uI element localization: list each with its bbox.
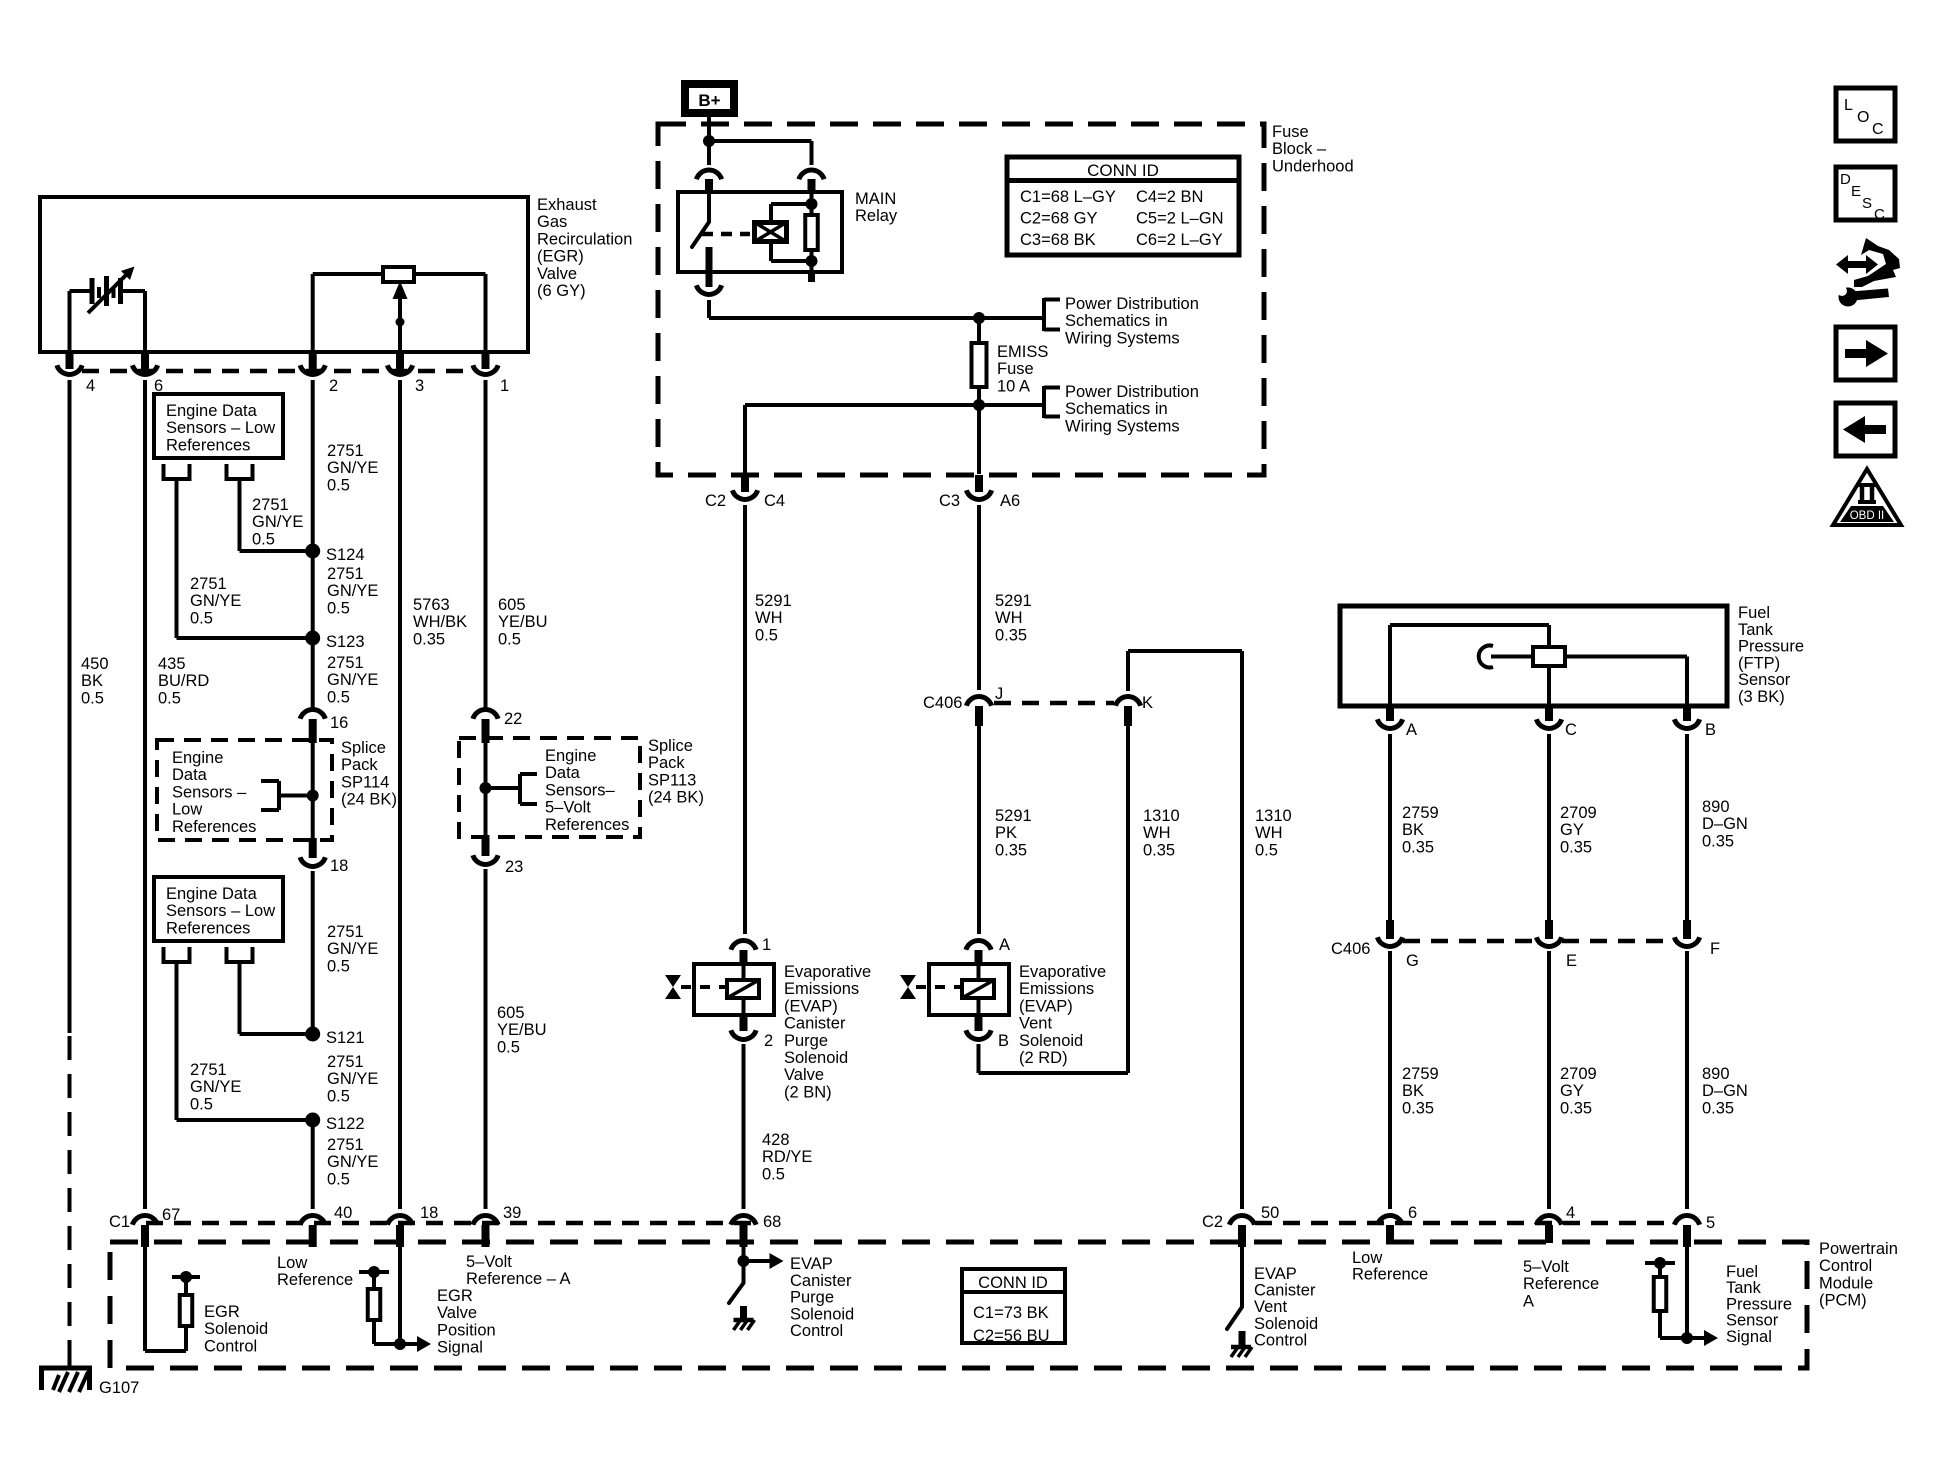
svg-text:C2=56 BU: C2=56 BU <box>973 1327 1050 1345</box>
svg-text:A: A <box>1523 1292 1534 1310</box>
PCM connector C2 dashed line <box>1255 1221 1675 1226</box>
wire 5291 PK to vent solenoid <box>977 726 981 934</box>
svg-text:Sensors–: Sensors– <box>545 781 616 799</box>
svg-text:2759: 2759 <box>1402 804 1439 822</box>
relay switch contact <box>692 192 713 272</box>
PCM pin 67 <box>109 1206 180 1247</box>
svg-text:4: 4 <box>1566 1204 1575 1222</box>
svg-text:Splice: Splice <box>648 737 693 755</box>
svg-text:0.5: 0.5 <box>327 599 350 617</box>
svg-text:F: F <box>1710 940 1720 958</box>
svg-text:J: J <box>995 685 1003 703</box>
svg-text:22: 22 <box>504 710 522 728</box>
svg-text:References: References <box>172 818 256 836</box>
svg-text:0.5: 0.5 <box>498 630 521 648</box>
svg-text:2751: 2751 <box>327 1136 364 1154</box>
svg-text:Solenoid: Solenoid <box>1254 1315 1318 1333</box>
svg-text:0.35: 0.35 <box>995 626 1027 644</box>
EGR position sensor element <box>70 267 146 353</box>
svg-text:Valve: Valve <box>537 265 577 283</box>
svg-text:Solenoid: Solenoid <box>790 1305 854 1323</box>
PCM pin 68 <box>731 1213 781 1247</box>
svg-text:MAIN: MAIN <box>855 190 896 208</box>
svg-text:2751: 2751 <box>327 1053 364 1071</box>
off-page bracket upper <box>1044 298 1060 331</box>
svg-text:0.5: 0.5 <box>497 1038 520 1056</box>
connector C2/C4 fuse block <box>705 475 785 510</box>
EGR connector dashed line <box>82 369 473 374</box>
svg-text:GN/YE: GN/YE <box>252 513 303 531</box>
svg-text:GN/YE: GN/YE <box>190 1078 241 1096</box>
EGR valve position signal node <box>394 1247 431 1352</box>
relay pin connector (switch) <box>696 170 721 192</box>
icon LOC <box>1836 88 1895 141</box>
svg-text:Power Distribution: Power Distribution <box>1065 295 1199 313</box>
svg-text:Pressure: Pressure <box>1738 638 1804 656</box>
svg-text:BU/RD: BU/RD <box>158 672 209 690</box>
relay coil top branch <box>771 198 818 221</box>
svg-text:18: 18 <box>330 857 348 875</box>
svg-text:G: G <box>1406 952 1419 970</box>
splice S124 <box>305 544 320 559</box>
svg-text:C6=2 L–GY: C6=2 L–GY <box>1136 231 1223 249</box>
FTP sensor signal node <box>1681 1247 1718 1346</box>
icon arrow left <box>1836 403 1895 456</box>
CONN ID table fuse block <box>1007 157 1239 255</box>
svg-text:C4=2 BN: C4=2 BN <box>1136 188 1203 206</box>
EVAP vent solenoid connector pin B <box>966 1015 1009 1050</box>
svg-text:C5=2 L–GN: C5=2 L–GN <box>1136 210 1224 228</box>
svg-text:50: 50 <box>1261 1204 1279 1222</box>
connector claw left of upper box <box>162 464 192 479</box>
wire through SP113 <box>484 741 488 837</box>
wire 605 YE/BU from pin 1 to splice pack SP113 <box>484 380 488 709</box>
svg-text:1: 1 <box>762 936 771 954</box>
wire through SP114 <box>311 743 315 840</box>
connector claw right of lower box <box>225 947 255 962</box>
ground purge control <box>734 1318 754 1323</box>
svg-text:Sensors – Low: Sensors – Low <box>166 419 275 437</box>
svg-text:D–GN: D–GN <box>1702 1082 1748 1100</box>
svg-text:EVAP: EVAP <box>790 1255 833 1273</box>
ground G107 <box>39 1366 139 1397</box>
wire 605 YE/BU from pin 23 to PCM pin 39 <box>484 869 488 1209</box>
svg-text:5291: 5291 <box>995 807 1032 825</box>
PCM pin 40 <box>300 1204 352 1247</box>
svg-text:2709: 2709 <box>1560 804 1597 822</box>
svg-text:RD/YE: RD/YE <box>762 1148 812 1166</box>
SP113 bracket <box>480 774 538 804</box>
svg-text:Solenoid: Solenoid <box>1019 1032 1083 1050</box>
svg-text:Recirculation: Recirculation <box>537 230 632 248</box>
svg-text:C3=68 BK: C3=68 BK <box>1020 231 1096 249</box>
svg-text:Relay: Relay <box>855 207 898 225</box>
svg-text:428: 428 <box>762 1131 790 1149</box>
svg-text:SP114: SP114 <box>341 773 389 791</box>
splice pack SP113 dashed box <box>459 738 640 837</box>
connector C406 pin J <box>923 685 1003 726</box>
icon arrow right <box>1836 327 1895 380</box>
Engine Data Sensors box upper <box>154 394 283 458</box>
svg-text:2: 2 <box>764 1032 773 1050</box>
svg-text:Data: Data <box>545 764 581 782</box>
EMISS fuse F1 10A <box>972 318 987 405</box>
svg-text:G107: G107 <box>99 1379 139 1397</box>
svg-text:S122: S122 <box>326 1115 365 1133</box>
purge solenoid valve symbol <box>665 975 727 999</box>
EGR connector pin 6 <box>132 352 163 395</box>
wire 5291 WH 0.35 to C406 J <box>977 505 981 690</box>
svg-text:0.5: 0.5 <box>81 689 104 707</box>
svg-text:Solenoid: Solenoid <box>784 1049 848 1067</box>
svg-text:Emissions: Emissions <box>784 980 859 998</box>
PCM pin 4 <box>1536 1204 1575 1243</box>
svg-text:GN/YE: GN/YE <box>327 1070 378 1088</box>
svg-text:Control: Control <box>1819 1257 1872 1275</box>
svg-text:EGR: EGR <box>437 1287 473 1305</box>
svg-text:Underhood: Underhood <box>1272 157 1354 175</box>
wire 2759 BK lower <box>1388 951 1392 1209</box>
svg-text:2751: 2751 <box>327 923 364 941</box>
svg-text:WH: WH <box>755 609 783 627</box>
svg-text:Evaporative: Evaporative <box>1019 963 1106 981</box>
svg-text:S124: S124 <box>326 546 365 564</box>
svg-text:Splice: Splice <box>341 739 386 757</box>
EGR connector pin 1 <box>473 352 509 395</box>
wire 890 D-GN lower <box>1685 951 1689 1209</box>
splice S123 <box>305 631 320 646</box>
PCM pin 50 <box>1202 1204 1279 1247</box>
splice S121 <box>305 1027 320 1042</box>
svg-text:References: References <box>166 919 250 937</box>
svg-text:Fuse: Fuse <box>997 360 1034 378</box>
FTP signal internal resistor <box>1645 1257 1687 1338</box>
svg-text:Canister: Canister <box>784 1015 846 1033</box>
svg-text:Valve: Valve <box>437 1304 477 1322</box>
svg-text:PK: PK <box>995 824 1017 842</box>
svg-text:Vent: Vent <box>1019 1015 1052 1033</box>
connector C406 pin G <box>1331 920 1419 970</box>
svg-text:S121: S121 <box>326 1029 365 1047</box>
svg-text:K: K <box>1142 694 1153 712</box>
svg-text:C2=68 GY: C2=68 GY <box>1020 210 1098 228</box>
svg-text:5291: 5291 <box>755 592 792 610</box>
svg-text:Engine Data: Engine Data <box>166 885 258 903</box>
connector C406 pin K <box>1115 694 1153 726</box>
svg-text:Wiring Systems: Wiring Systems <box>1065 417 1180 435</box>
svg-text:B: B <box>998 1032 1009 1050</box>
svg-text:CONN ID: CONN ID <box>1087 161 1159 180</box>
EGR solenoid control circuit <box>145 1247 200 1351</box>
svg-text:Control: Control <box>204 1337 257 1355</box>
EGR connector pin 3 <box>387 352 424 395</box>
svg-text:5291: 5291 <box>995 592 1032 610</box>
svg-text:0.5: 0.5 <box>190 609 213 627</box>
wire 5291 WH 0.5 to purge solenoid <box>743 505 747 934</box>
svg-text:605: 605 <box>497 1004 525 1022</box>
svg-text:L: L <box>1844 97 1853 114</box>
svg-text:Engine: Engine <box>172 749 223 767</box>
svg-text:EVAP: EVAP <box>1254 1265 1297 1283</box>
svg-text:0.35: 0.35 <box>1143 841 1175 859</box>
junction dot B+ branch <box>703 135 715 147</box>
svg-text:C1=73 BK: C1=73 BK <box>973 1304 1049 1322</box>
svg-text:BK: BK <box>81 672 103 690</box>
connector pin 22 <box>473 710 522 743</box>
svg-text:Module: Module <box>1819 1274 1873 1292</box>
svg-text:Engine Data: Engine Data <box>166 402 258 420</box>
vent solenoid valve symbol <box>900 975 962 999</box>
svg-text:Canister: Canister <box>790 1272 852 1290</box>
svg-text:S: S <box>1862 195 1872 212</box>
svg-text:C: C <box>1874 206 1885 223</box>
PCM pin 5 <box>1674 1214 1715 1247</box>
svg-text:(2 BN): (2 BN) <box>784 1083 832 1101</box>
svg-text:0.5: 0.5 <box>755 626 778 644</box>
wire 450 BK dashed section to G107 <box>68 1036 72 1356</box>
svg-text:A6: A6 <box>1000 492 1020 510</box>
FTP connector pin C <box>1536 706 1577 739</box>
icon shortcut wrench <box>1836 238 1900 307</box>
wire 450 BK from pin 4 <box>68 380 72 1033</box>
wire from right claw to S121 <box>240 962 313 1034</box>
svg-text:890: 890 <box>1702 798 1730 816</box>
connector pin 16 <box>300 710 348 743</box>
svg-text:39: 39 <box>503 1204 521 1222</box>
svg-text:0.5: 0.5 <box>327 1087 350 1105</box>
wire B+ to relay <box>707 113 711 165</box>
svg-text:1310: 1310 <box>1255 807 1292 825</box>
wire 428 RD/YE to PCM pin 68 <box>742 1044 746 1209</box>
svg-text:C1: C1 <box>109 1213 130 1231</box>
relay resistor <box>805 192 818 282</box>
splice S122 <box>305 1113 320 1128</box>
svg-text:E: E <box>1566 952 1577 970</box>
EGR connector pin 2 <box>300 352 338 395</box>
svg-text:(3 BK): (3 BK) <box>1738 688 1785 706</box>
fuse block underhood dashed box <box>658 124 1264 475</box>
svg-text:Canister: Canister <box>1254 1282 1316 1300</box>
svg-text:(6 GY): (6 GY) <box>537 282 586 300</box>
svg-text:3: 3 <box>415 377 424 395</box>
wire relay output to EMISS fuse <box>709 300 1044 324</box>
FTP sensor internal wiring <box>1390 625 1549 706</box>
svg-text:B+: B+ <box>698 91 720 110</box>
svg-text:Control: Control <box>790 1322 843 1340</box>
relay coil (solenoid) <box>754 222 787 242</box>
connector C406 pin E <box>1536 920 1577 970</box>
connector claw left of lower box <box>162 947 192 962</box>
off-page bracket lower <box>1044 386 1060 418</box>
wire 2709 GY lower <box>1547 951 1551 1209</box>
svg-text:GN/YE: GN/YE <box>327 582 378 600</box>
svg-text:2751: 2751 <box>327 654 364 672</box>
svg-text:0.35: 0.35 <box>1702 1099 1734 1117</box>
svg-text:(2 RD): (2 RD) <box>1019 1049 1068 1067</box>
svg-text:605: 605 <box>498 596 526 614</box>
svg-text:0.5: 0.5 <box>1255 841 1278 859</box>
C406 dashed connector line J-K <box>994 701 1114 706</box>
svg-text:0.5: 0.5 <box>252 530 275 548</box>
svg-text:Power Distribution: Power Distribution <box>1065 383 1199 401</box>
SP114 bracket <box>261 781 319 810</box>
svg-text:EMISS: EMISS <box>997 343 1048 361</box>
svg-text:5–Volt: 5–Volt <box>466 1253 512 1271</box>
svg-text:(24 BK): (24 BK) <box>341 791 397 809</box>
FTP sensing element <box>1479 646 1687 707</box>
svg-text:Purge: Purge <box>790 1289 834 1307</box>
svg-text:0.35: 0.35 <box>995 841 1027 859</box>
svg-text:(FTP): (FTP) <box>1738 654 1780 672</box>
svg-text:GN/YE: GN/YE <box>327 940 378 958</box>
svg-text:Low: Low <box>1352 1249 1382 1267</box>
svg-text:YE/BU: YE/BU <box>498 613 548 631</box>
svg-text:S123: S123 <box>326 633 365 651</box>
svg-text:Valve: Valve <box>784 1066 824 1084</box>
svg-text:BK: BK <box>1402 1082 1424 1100</box>
wire fused output <box>745 399 1044 474</box>
svg-text:Reference: Reference <box>1523 1275 1599 1293</box>
svg-text:GN/YE: GN/YE <box>190 592 241 610</box>
svg-text:C3: C3 <box>939 492 960 510</box>
svg-text:Sensor: Sensor <box>1738 671 1791 689</box>
connector C3/A6 fuse block <box>939 475 1020 510</box>
svg-text:6: 6 <box>1408 1204 1417 1222</box>
svg-text:YE/BU: YE/BU <box>497 1021 547 1039</box>
svg-text:C: C <box>1872 121 1884 138</box>
svg-text:Evaporative: Evaporative <box>784 963 871 981</box>
svg-text:BK: BK <box>1402 821 1424 839</box>
relay switch output connector <box>696 272 721 294</box>
svg-text:References: References <box>545 816 629 834</box>
svg-text:Signal: Signal <box>437 1339 483 1357</box>
svg-text:0.35: 0.35 <box>1702 832 1734 850</box>
wire from left claw to S123 <box>177 479 313 638</box>
svg-text:C4: C4 <box>764 492 785 510</box>
svg-text:Control: Control <box>1254 1331 1307 1349</box>
svg-text:5: 5 <box>1706 1214 1715 1232</box>
PCM pin 18 <box>387 1204 438 1247</box>
EVAP purge solenoid connector pin 1 <box>731 936 771 964</box>
svg-text:Pack: Pack <box>648 754 685 772</box>
svg-text:Low: Low <box>172 801 202 819</box>
svg-text:Schematics in: Schematics in <box>1065 312 1168 330</box>
svg-text:0.5: 0.5 <box>327 476 350 494</box>
svg-text:O: O <box>1857 109 1869 126</box>
svg-text:C1=68 L–GY: C1=68 L–GY <box>1020 188 1116 206</box>
svg-text:GY: GY <box>1560 1082 1584 1100</box>
svg-text:4: 4 <box>86 377 95 395</box>
svg-text:2: 2 <box>329 377 338 395</box>
svg-text:GN/YE: GN/YE <box>327 671 378 689</box>
Engine Data Sensors box lower <box>154 877 283 941</box>
svg-text:2759: 2759 <box>1402 1065 1439 1083</box>
CONN ID table PCM <box>962 1269 1065 1345</box>
connector pin 23 (splice) <box>473 835 523 876</box>
svg-text:Solenoid: Solenoid <box>204 1320 268 1338</box>
svg-text:Gas: Gas <box>537 213 567 231</box>
fuel tank pressure sensor box <box>1340 606 1727 706</box>
svg-text:0.35: 0.35 <box>1560 1099 1592 1117</box>
icon OBD II triangle <box>1833 469 1901 525</box>
EVAP purge control switch <box>729 1247 784 1320</box>
wire 890 D-GN upper <box>1685 734 1689 937</box>
svg-text:WH: WH <box>1143 824 1171 842</box>
relay actuator dashed link <box>702 232 750 237</box>
svg-text:Data: Data <box>172 766 208 784</box>
svg-text:435: 435 <box>158 655 186 673</box>
svg-text:5763: 5763 <box>413 596 450 614</box>
svg-text:10 A: 10 A <box>997 377 1030 395</box>
wire 5763 WH/BK from pin 3 to PCM pin 18 <box>398 380 402 1209</box>
EGR valve box <box>40 197 528 352</box>
svg-text:23: 23 <box>505 858 523 876</box>
svg-text:0.5: 0.5 <box>158 689 181 707</box>
svg-text:Signal: Signal <box>1726 1328 1772 1346</box>
svg-text:EGR: EGR <box>204 1303 240 1321</box>
svg-text:SP113: SP113 <box>648 771 696 789</box>
wire 2759 BK upper <box>1388 734 1392 937</box>
low reference internal resistor <box>359 1266 400 1344</box>
svg-text:Reference: Reference <box>1352 1265 1428 1283</box>
svg-text:Low: Low <box>277 1254 307 1272</box>
wire 1310 WH below K <box>1126 726 1130 1073</box>
svg-text:18: 18 <box>420 1204 438 1222</box>
svg-text:450: 450 <box>81 655 109 673</box>
svg-text:(24 BK): (24 BK) <box>648 789 704 807</box>
wire 2751 from S122 to PCM pin 40 <box>311 1120 315 1209</box>
wire 2751 from pin 2 to splice pack <box>311 380 315 709</box>
svg-text:0.5: 0.5 <box>327 1170 350 1188</box>
svg-text:Fuel: Fuel <box>1738 604 1770 622</box>
EVAP vent control switch <box>1227 1247 1246 1347</box>
svg-text:0.35: 0.35 <box>1402 1099 1434 1117</box>
svg-text:68: 68 <box>763 1213 781 1231</box>
svg-text:67: 67 <box>162 1206 180 1224</box>
main relay U1 box <box>678 192 842 272</box>
svg-text:B: B <box>1705 721 1716 739</box>
svg-text:GN/YE: GN/YE <box>327 459 378 477</box>
svg-text:A: A <box>999 936 1010 954</box>
svg-text:2751: 2751 <box>190 1061 227 1079</box>
wire 2709 GY upper <box>1547 734 1551 937</box>
svg-text:1310: 1310 <box>1143 807 1180 825</box>
svg-text:CONN ID: CONN ID <box>978 1274 1048 1292</box>
svg-text:Engine: Engine <box>545 747 596 765</box>
svg-text:GN/YE: GN/YE <box>327 1153 378 1171</box>
svg-text:(EGR): (EGR) <box>537 248 584 266</box>
svg-text:2751: 2751 <box>327 565 364 583</box>
wire from K up to PCM pin 50 <box>1128 651 1242 1209</box>
wire from left claw to S122 <box>177 962 313 1120</box>
svg-text:C2: C2 <box>1202 1213 1223 1231</box>
svg-text:1: 1 <box>500 377 509 395</box>
svg-text:0.5: 0.5 <box>190 1095 213 1113</box>
svg-text:0.5: 0.5 <box>762 1165 785 1183</box>
svg-text:(EVAP): (EVAP) <box>1019 997 1073 1015</box>
svg-text:0.35: 0.35 <box>1402 838 1434 856</box>
connector claw right of upper box <box>225 464 255 479</box>
svg-text:D–GN: D–GN <box>1702 815 1748 833</box>
wire vent solenoid B to C406 K <box>979 1044 1129 1073</box>
connector C406 pin F <box>1674 920 1720 958</box>
wire 435 BU/RD from pin 6 to PCM pin 67 <box>143 380 147 1209</box>
svg-text:Sensors –: Sensors – <box>172 783 247 801</box>
svg-text:GY: GY <box>1560 821 1584 839</box>
svg-text:A: A <box>1406 721 1417 739</box>
svg-text:D: D <box>1840 171 1851 188</box>
relay pin connector (coil) <box>799 170 824 192</box>
